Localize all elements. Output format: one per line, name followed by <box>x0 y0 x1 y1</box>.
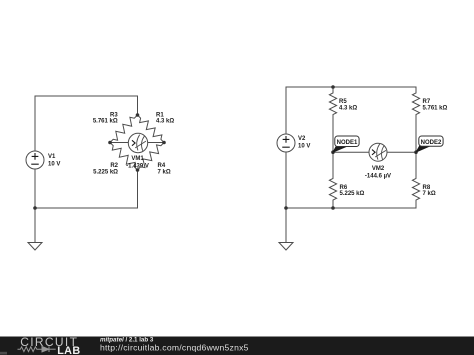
footer title <box>100 336 154 343</box>
node right-circuit top junction <box>331 85 335 89</box>
wire right branch center <box>415 116 417 177</box>
wire right-circuit ground stem <box>285 208 287 242</box>
node bridge bottom <box>136 168 140 172</box>
footer bar <box>0 330 474 355</box>
node NODE2 flag <box>416 136 443 152</box>
wire middle branch upper lead <box>332 87 334 92</box>
wire left-circuit left rail upper <box>34 96 36 151</box>
wire left-circuit ground stem <box>34 208 36 242</box>
node left-circuit bottom junction <box>33 206 37 210</box>
wire left-circuit bottom rail <box>35 170 138 208</box>
node NODE1 junction <box>331 150 335 154</box>
node bridge top <box>136 113 140 117</box>
svg-text:5.225 kΩ: 5.225 kΩ <box>340 191 365 197</box>
ground GND1 <box>28 243 42 251</box>
svg-text:5.761 kΩ: 5.761 kΩ <box>93 119 118 125</box>
wire right-circuit top rail <box>286 87 416 92</box>
svg-text:10 V: 10 V <box>298 144 310 150</box>
resistor R6 <box>329 177 364 202</box>
svg-text:NODE1: NODE1 <box>337 140 358 146</box>
voltmeter VM2 <box>365 143 391 179</box>
svg-text:R2: R2 <box>110 163 118 169</box>
resistor R4 <box>138 143 171 176</box>
svg-text:http://circuitlab.com/cnqd6wwn: http://circuitlab.com/cnqd6wwn5znx5 <box>100 343 249 353</box>
svg-text:4.3 kΩ: 4.3 kΩ <box>156 119 174 125</box>
svg-text:R5: R5 <box>339 99 347 105</box>
svg-text:7 kΩ: 7 kΩ <box>423 191 436 197</box>
wire right-circuit left rail upper <box>285 87 287 134</box>
node right-circuit bottom-middle junction <box>331 206 335 210</box>
node right-circuit bottom-left junction <box>284 206 288 210</box>
wire left-circuit top rail <box>35 96 138 115</box>
wire left-circuit left rail lower <box>34 169 36 208</box>
svg-text:R6: R6 <box>340 185 348 191</box>
svg-text:5.225 kΩ: 5.225 kΩ <box>93 169 118 175</box>
node NODE2 junction <box>414 150 418 154</box>
svg-text:R3: R3 <box>110 112 118 118</box>
resistor R8 <box>412 177 435 202</box>
wire bridge measurement diagonal <box>110 142 164 144</box>
footer logo squiggle <box>18 346 56 352</box>
ground GND2 <box>279 243 293 251</box>
svg-text:R8: R8 <box>423 185 431 191</box>
node NODE1 flag <box>333 136 359 152</box>
wire right-circuit left rail lower <box>285 152 287 208</box>
footer logo CIRCUIT <box>20 335 78 349</box>
resistor R2 <box>93 143 137 176</box>
svg-text:V2: V2 <box>298 136 306 142</box>
svg-text:R1: R1 <box>156 112 164 118</box>
node bridge left <box>108 141 112 145</box>
svg-text:NODE2: NODE2 <box>421 140 442 146</box>
voltmeter VM1 <box>126 133 149 169</box>
svg-text:R4: R4 <box>158 163 166 169</box>
wire middle branch bottom lead <box>332 202 334 209</box>
footer logo LAB <box>57 345 80 355</box>
svg-text:V1: V1 <box>48 154 56 160</box>
voltage source V2 <box>277 134 310 152</box>
svg-text:5.761 kΩ: 5.761 kΩ <box>423 106 448 112</box>
footer notch <box>0 352 7 355</box>
voltage source V1 <box>26 151 60 169</box>
resistor R1 <box>138 112 175 142</box>
resistor R7 <box>412 92 447 117</box>
wire middle branch center <box>332 116 334 177</box>
svg-text:LAB: LAB <box>57 345 80 355</box>
svg-text:10 V: 10 V <box>48 161 60 167</box>
svg-text:VM2: VM2 <box>372 166 385 172</box>
wire right-circuit bottom rail <box>286 202 416 209</box>
svg-text:7 kΩ: 7 kΩ <box>158 169 171 175</box>
svg-text:-144.6 µV: -144.6 µV <box>365 173 391 179</box>
footer url <box>100 343 249 353</box>
svg-text:R7: R7 <box>423 99 431 105</box>
svg-text:4.3 kΩ: 4.3 kΩ <box>339 106 357 112</box>
svg-text:VM1: VM1 <box>131 156 144 162</box>
resistor R5 <box>329 92 357 117</box>
node bridge right <box>162 141 166 145</box>
resistor R3 <box>93 112 138 142</box>
wire measurement rail NODE1-NODE2 <box>333 151 416 153</box>
